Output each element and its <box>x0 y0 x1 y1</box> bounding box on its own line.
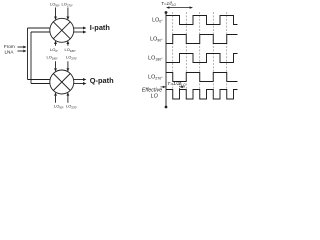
arrowhead: Q-path upper <box>83 78 86 81</box>
arrowhead: Q-path lower <box>83 82 86 85</box>
axis: vertical time axis <box>165 13 167 108</box>
svg-text:T=1/fLO: T=1/fLO <box>161 1 176 7</box>
svg-text:I-path: I-path <box>90 23 111 32</box>
node: axis top dot <box>165 11 168 14</box>
svg-text:LO180°: LO180° <box>65 47 76 53</box>
waveform LO270 <box>166 73 238 82</box>
LO drive arrows: bottom of mixer M2 (pointing up) <box>55 96 57 103</box>
svg-text:LNA: LNA <box>4 49 14 54</box>
waveform LO0 <box>166 16 238 25</box>
svg-text:LO270°: LO270° <box>66 104 77 110</box>
waveform labels <box>142 18 163 100</box>
svg-text:LO270°: LO270° <box>66 55 77 61</box>
svg-text:LO0°: LO0° <box>50 47 58 53</box>
wire: RF bus vertical left <box>27 28 29 80</box>
arrowhead: I-path upper <box>83 27 86 30</box>
wire: Q-path output upper <box>74 79 84 81</box>
gridlines: dashed verticals every T/4 <box>173 12 227 100</box>
svg-text:LO: LO <box>151 93 158 99</box>
svg-text:LO90°: LO90° <box>150 36 163 42</box>
LO drive arrows: top of mixer M1 <box>54 8 69 103</box>
svg-text:Q-path: Q-path <box>90 76 114 85</box>
label: From LNA <box>4 44 15 55</box>
mixer M2 X <box>53 74 70 91</box>
svg-text:LO180°: LO180° <box>47 55 58 61</box>
svg-text:LO270°: LO270° <box>148 74 163 80</box>
wire: RF bus vertical right <box>30 32 32 84</box>
arrowhead: I-path lower <box>83 31 86 34</box>
labels: LO phases around mixers <box>47 2 78 110</box>
mixer M1 (I-path) circle <box>50 18 74 42</box>
svg-text:LO270°: LO270° <box>62 2 73 8</box>
wire: From LNA arrow stems <box>18 47 25 51</box>
wire: top mixer input upper <box>28 27 50 29</box>
waveform LO180 <box>166 54 238 63</box>
wire: Q-path output lower <box>74 83 84 85</box>
arrowhead: From LNA arrow 2 <box>23 50 26 53</box>
waveform Effective LO <box>166 90 238 100</box>
waveform LO90 <box>166 35 238 44</box>
mixer M1 X <box>53 22 70 39</box>
svg-text:Effective: Effective <box>142 87 162 93</box>
wire: top mixer input lower <box>31 31 50 33</box>
wire: I-path output lower <box>74 31 84 33</box>
dimension: T=1/2f_LO (effective LO period), inward arrows <box>161 82 186 89</box>
svg-text:LO90°: LO90° <box>50 2 60 8</box>
mixer M2 (Q-path) circle <box>50 70 74 94</box>
wire: bottom mixer input upper <box>28 79 50 81</box>
dimension: T = 1/f_LO <box>166 6 193 8</box>
wire: bottom mixer input lower <box>31 83 50 85</box>
svg-text:LO90°: LO90° <box>54 104 64 110</box>
svg-text:From: From <box>4 44 15 49</box>
node: axis bottom dot <box>165 106 168 109</box>
LO drive arrows: bottom of mixer M1 (pointing up) <box>55 43 57 46</box>
svg-text:LO180°: LO180° <box>148 55 163 61</box>
svg-text:LO0°: LO0° <box>152 18 163 24</box>
LO drive arrows: top of mixer M2 (pointing down) <box>55 61 57 68</box>
arrowhead: From LNA arrow 1 <box>23 46 26 49</box>
wire: I-path output upper <box>74 27 84 29</box>
